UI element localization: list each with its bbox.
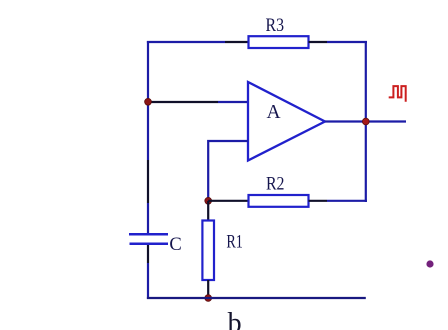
wire: R1 top lead <box>207 201 209 221</box>
wire: R2 right to right vertical <box>309 200 368 202</box>
svg-text:R2: R2 <box>266 174 285 194</box>
resistor R3 <box>249 36 309 48</box>
wire: right vertical from top corner down to R2 corner <box>365 41 367 202</box>
node: output junction dot <box>362 118 369 125</box>
svg-text:b: b <box>228 308 242 330</box>
resistor R2 <box>249 195 309 207</box>
wire: capacitor bottom lead down to bottom rail <box>147 245 149 299</box>
icon: square wave output symbol <box>389 86 406 102</box>
wire: node to R2 left <box>208 200 249 202</box>
wire: R1 bottom lead <box>207 280 209 298</box>
svg-text:A: A <box>266 102 280 123</box>
svg-text:R1: R1 <box>226 233 243 253</box>
decorative purple bullet dot <box>426 260 433 267</box>
wire: R3 right to top-right corner <box>309 41 368 43</box>
node: junction dot at left vertical and input wire <box>145 98 152 105</box>
resistor R1 (vertical) <box>202 221 214 281</box>
node: junction dot at inverting feedback node <box>205 197 212 204</box>
op-amp A triangle <box>248 82 325 161</box>
wire: op-amp non-inverting input horizontal <box>148 101 248 103</box>
wire: output from apex to right <box>325 120 406 122</box>
wire: op-amp inverting input bend down to R2 node <box>208 141 248 200</box>
capacitor C plates <box>129 234 168 243</box>
wire: top feedback horizontal from left corner to R3 <box>147 41 249 43</box>
svg-text:C: C <box>169 235 181 255</box>
wire: bottom rail <box>147 297 366 299</box>
svg-text:R3: R3 <box>266 16 285 36</box>
wire: left vertical from top-left corner down to capacitor top plate <box>147 41 149 234</box>
node: bottom junction dot <box>205 295 212 302</box>
